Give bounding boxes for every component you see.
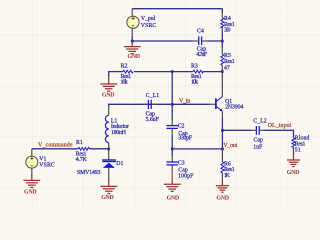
wire C2 to junction bbox=[171, 129, 173, 135]
svg-text:GND: GND bbox=[102, 92, 115, 98]
wire V_out bbox=[172, 148, 222, 150]
svg-text:GND: GND bbox=[101, 195, 114, 201]
svg-text:C3: C3 bbox=[178, 160, 185, 166]
node junction base/C_L1 bbox=[171, 103, 174, 106]
wire C_L2 to Rload corner bbox=[264, 130, 293, 138]
inductor L1 bbox=[105, 115, 108, 142]
capacitor C_L2 bbox=[256, 126, 259, 135]
wire C4 left bbox=[132, 40, 193, 42]
capacitor C3 bbox=[166, 162, 178, 165]
svg-text:47: 47 bbox=[224, 65, 230, 71]
svg-text:V_pol: V_pol bbox=[141, 16, 156, 22]
wire base bbox=[172, 103, 210, 105]
capacitor C_L1 bbox=[148, 100, 151, 109]
ground under D1 bbox=[100, 180, 117, 193]
diode D1 varactor bbox=[102, 160, 116, 168]
transistor Q1 bbox=[216, 96, 223, 111]
svg-text:Inductor: Inductor bbox=[111, 124, 129, 130]
ground under C3 bbox=[164, 178, 181, 191]
ground under Rload bbox=[287, 154, 300, 167]
resistor R4 bbox=[221, 18, 224, 28]
svg-text:1K: 1K bbox=[224, 173, 231, 179]
svg-text:C_L1: C_L1 bbox=[146, 93, 159, 99]
node junction emitter/C_L2 bbox=[221, 129, 224, 132]
svg-text:10k: 10k bbox=[191, 79, 198, 85]
pin C2 top bbox=[171, 104, 173, 120]
svg-text:180nH: 180nH bbox=[111, 130, 127, 136]
ground under V_pol bbox=[124, 41, 141, 54]
svg-text:5.6nF: 5.6nF bbox=[146, 117, 160, 123]
node junction V_out right bbox=[221, 148, 224, 151]
svg-text:VSRC: VSRC bbox=[141, 23, 157, 29]
svg-text:1nF: 1nF bbox=[253, 145, 263, 151]
pin C4 right bbox=[202, 40, 207, 42]
svg-text:OL_input: OL_input bbox=[268, 123, 292, 129]
pin C_L2 right bbox=[260, 129, 265, 131]
node junction V_pol/C4 bbox=[131, 40, 134, 43]
svg-text:C_L2: C_L2 bbox=[253, 119, 266, 125]
wire R2 left bbox=[108, 71, 123, 73]
wire Rload to gnd bbox=[293, 148, 295, 155]
wire middle column down bbox=[171, 72, 173, 105]
wire L1 bottom to junction bbox=[108, 143, 110, 149]
node junction R1/L1/D1 bbox=[107, 148, 110, 151]
svg-text:330: 330 bbox=[224, 28, 231, 34]
wire emitter down bbox=[221, 112, 223, 118]
resistor R6 bbox=[221, 162, 224, 173]
svg-text:R1: R1 bbox=[76, 140, 83, 146]
svg-text:4.7nF: 4.7nF bbox=[196, 52, 207, 58]
svg-text:Cap: Cap bbox=[254, 138, 263, 144]
pin C_L1 right bbox=[152, 103, 157, 105]
svg-text:10k: 10k bbox=[121, 79, 128, 85]
resistor R3 bbox=[172, 71, 222, 73]
svg-text:GND: GND bbox=[287, 170, 300, 176]
svg-text:GND: GND bbox=[128, 54, 141, 60]
svg-text:R2: R2 bbox=[121, 64, 128, 70]
wire C_L2 left bbox=[222, 129, 251, 131]
node junction C4/R4/R5 bbox=[221, 40, 224, 43]
wire R4 top bbox=[221, 9, 223, 13]
node junction V_out left bbox=[171, 148, 174, 151]
svg-text:GND: GND bbox=[216, 195, 229, 201]
svg-text:D1: D1 bbox=[116, 161, 123, 167]
svg-text:VSRC: VSRC bbox=[39, 162, 55, 168]
svg-text:2N3904: 2N3904 bbox=[225, 105, 243, 111]
svg-text:R3: R3 bbox=[191, 64, 198, 70]
pin C_L1 left bbox=[144, 103, 149, 105]
pin R6 top bbox=[221, 149, 223, 162]
wire R6 to gnd bbox=[221, 173, 223, 180]
ground under V1 bbox=[23, 174, 40, 187]
resistor R5 bbox=[221, 54, 224, 65]
capacitor C4 bbox=[199, 36, 202, 45]
resistor Rload bbox=[292, 138, 295, 148]
wire collector column bbox=[221, 72, 223, 97]
resistor R1 bbox=[78, 147, 89, 150]
wire R2 to junction bbox=[134, 71, 172, 73]
wire V_pol to junction bbox=[131, 36, 133, 41]
wire C3 to gnd bbox=[171, 165, 173, 171]
voltage source V1 bbox=[26, 156, 38, 168]
wire V_pol bottom pin bbox=[131, 29, 133, 36]
svg-text:330pF: 330pF bbox=[178, 136, 193, 142]
ground under R2 bbox=[100, 78, 117, 91]
wire R5 to junction bbox=[221, 65, 223, 72]
pin V1 bottom bbox=[31, 168, 33, 175]
node junction R2/R3 bbox=[171, 70, 174, 73]
pin C_L2 left bbox=[252, 129, 257, 131]
svg-text:GND: GND bbox=[167, 196, 180, 202]
wire V_pol top pin bbox=[131, 9, 133, 16]
pin D1 top bbox=[108, 149, 110, 160]
wire top V_pol to R4 bbox=[132, 8, 222, 10]
node junction R5/R3/collector bbox=[221, 70, 224, 73]
svg-text:V_out: V_out bbox=[223, 143, 237, 149]
wire V1 to R1 bbox=[32, 148, 78, 150]
wire emitter junction to V_out junction bbox=[221, 130, 223, 149]
pin C4 left bbox=[193, 40, 198, 42]
resistor R2 bbox=[123, 70, 133, 73]
wire junction to C3 bbox=[171, 149, 173, 156]
wire C4 right to R4 column bbox=[207, 40, 222, 42]
wire V1 stub bbox=[31, 149, 33, 156]
voltage source V_pol bbox=[127, 16, 139, 28]
svg-text:V_commande: V_commande bbox=[38, 143, 73, 149]
svg-text:4.7K: 4.7K bbox=[76, 157, 88, 163]
svg-text:GND: GND bbox=[24, 190, 37, 196]
svg-text:Res1: Res1 bbox=[224, 59, 235, 65]
wire junction to R5 bbox=[221, 41, 223, 49]
svg-text:C4: C4 bbox=[197, 29, 204, 35]
svg-text:100pF: 100pF bbox=[178, 174, 194, 180]
ground under R6 bbox=[216, 180, 229, 193]
wire C_L1 branch corner bbox=[109, 104, 173, 106]
capacitor C2 bbox=[166, 126, 178, 129]
pin D1 bottom bbox=[108, 168, 110, 181]
wire R2 gnd riser bbox=[108, 72, 110, 77]
wire R4 to junction bbox=[221, 26, 223, 31]
svg-text:51: 51 bbox=[295, 148, 301, 154]
wire R1 to junction bbox=[90, 148, 109, 150]
svg-text:SMV1493: SMV1493 bbox=[77, 170, 101, 176]
svg-text:C2: C2 bbox=[178, 124, 185, 130]
